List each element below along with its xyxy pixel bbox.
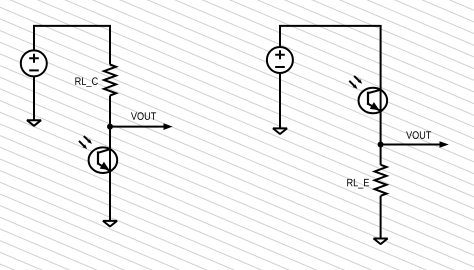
wire resistor RL_C bottom lead [109, 96, 111, 127]
voltage source V1 [21, 50, 47, 76]
VOUT arrow right [381, 141, 449, 148]
node B junction dot [378, 142, 384, 148]
wire top rail left circuit [33, 25, 111, 27]
node A junction dot [107, 124, 113, 130]
label VOUT left [131, 112, 156, 120]
wire V1 to ground [33, 76, 35, 120]
wire top rail right circuit [279, 25, 382, 27]
resistor RL_C [104, 65, 116, 96]
ground Q1 emitter [103, 221, 117, 227]
voltage source V2 [267, 47, 293, 73]
label RL_E [347, 179, 369, 189]
label RL_C [75, 77, 97, 87]
ground V1 [27, 120, 41, 126]
light arrow 1 into Q2 [354, 76, 362, 84]
wire collector lead to node VOUT (through Q2) [380, 26, 382, 145]
light arrow 1 into Q1 [84, 136, 92, 144]
resistor RL_E [375, 165, 387, 196]
VOUT arrow left [110, 123, 173, 130]
phototransistor Q1 [89, 147, 118, 173]
ground RL_E [374, 239, 388, 245]
wire node VOUT to ground (through Q1) [109, 127, 111, 221]
wire resistor RL_E bottom lead [380, 196, 382, 239]
ground V2 [273, 128, 287, 134]
wire V1 top stub [33, 26, 35, 51]
wire V2 to ground [279, 73, 281, 129]
wire V2 top stub [279, 26, 281, 47]
light arrow 2 into Q1 [79, 141, 87, 149]
phototransistor Q2 [359, 88, 388, 114]
wire resistor RL_E top lead [380, 145, 382, 165]
label VOUT right [406, 131, 431, 139]
light arrow 2 into Q2 [349, 81, 357, 89]
wire resistor RL_C top lead [109, 26, 111, 65]
